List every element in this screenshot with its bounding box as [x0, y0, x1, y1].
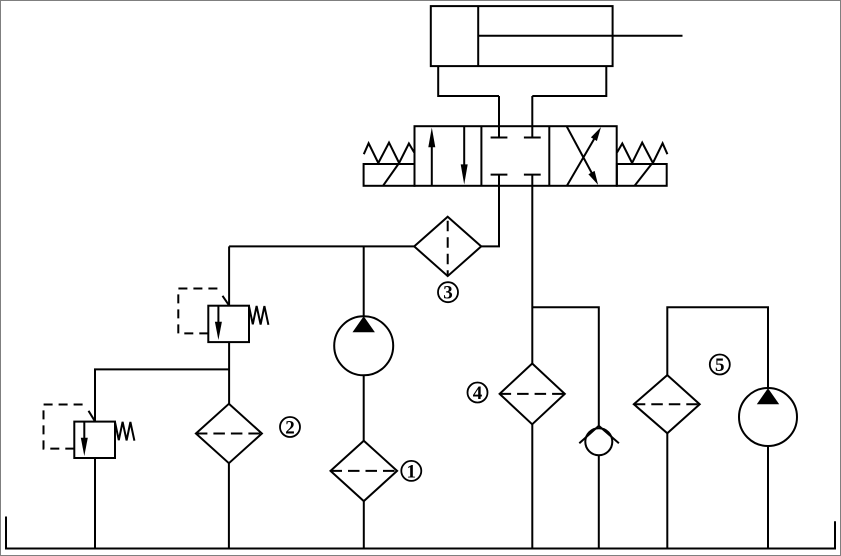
svg-text:3: 3	[443, 283, 453, 304]
svg-text:1: 1	[407, 461, 417, 482]
svg-text:4: 4	[473, 383, 483, 404]
svg-text:2: 2	[285, 418, 295, 439]
svg-text:5: 5	[715, 355, 725, 376]
